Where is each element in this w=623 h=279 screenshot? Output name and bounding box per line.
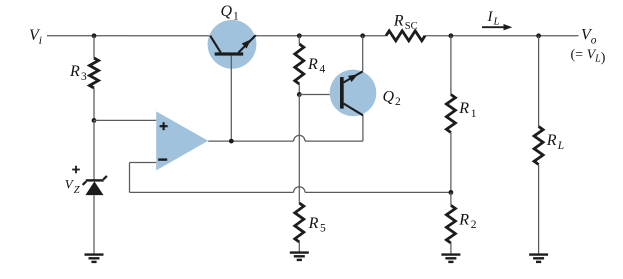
- svg-text:SC: SC: [405, 21, 418, 32]
- current label IL with arrow: [482, 9, 512, 31]
- junction output rail / RL: [536, 33, 541, 38]
- junction output rail / R1: [449, 33, 454, 38]
- resistor R4: [295, 36, 326, 95]
- svg-text:(= VL): (= VL): [571, 47, 606, 65]
- svg-text:Q: Q: [221, 3, 233, 20]
- wire hop over R5 branch (feedback wire): [294, 187, 305, 193]
- resistor R5: [295, 203, 326, 252]
- node Vo: [571, 27, 606, 66]
- svg-text:Vo: Vo: [581, 27, 597, 47]
- ground below zener: [85, 255, 104, 262]
- wire op-amp inverting input: [130, 163, 157, 193]
- svg-text:L: L: [557, 140, 564, 152]
- svg-text:R: R: [69, 63, 80, 80]
- op-amp U1: [156, 111, 208, 170]
- svg-text:R: R: [393, 13, 404, 30]
- svg-text:R: R: [546, 132, 557, 149]
- svg-text:R: R: [307, 56, 318, 73]
- ground below R5: [290, 253, 309, 260]
- svg-text:R: R: [458, 211, 469, 228]
- transistor Q1: [208, 3, 257, 69]
- ground below RL: [529, 255, 548, 262]
- wire junction to op-amp noninverting input: [94, 119, 156, 121]
- resistor RSC: [386, 13, 425, 41]
- resistor R3: [69, 36, 99, 121]
- svg-text:Z: Z: [74, 185, 80, 196]
- svg-text:R: R: [458, 100, 469, 117]
- svg-text:1: 1: [471, 108, 477, 120]
- junction op-amp output / Q1 base: [229, 139, 234, 144]
- wire op-amp output to Q1 base junction: [208, 140, 293, 142]
- junction R4 / Q2 base / R5 branch: [297, 92, 302, 97]
- resistor R1: [446, 36, 476, 193]
- wire feedback run to R1/R2 tap: [130, 191, 294, 193]
- wire Q2 base: [299, 94, 340, 96]
- wire zener anode lead: [93, 120, 95, 179]
- svg-text:3: 3: [81, 71, 87, 83]
- resistor RL: [534, 36, 564, 254]
- wire hop over R5 branch (output wire): [294, 135, 305, 141]
- ground below R2: [441, 255, 460, 262]
- wire zener to ground: [93, 195, 95, 254]
- wire R4 junction down to R5: [298, 95, 300, 204]
- wire input rail from Vi to Q1 collector: [47, 35, 211, 37]
- zener diode VZ: [65, 166, 107, 196]
- wire Q1 base down to op-amp output: [230, 56, 232, 142]
- wire Q1 emitter to RSC: [256, 35, 386, 37]
- wire RSC to Vo: [425, 35, 579, 37]
- junction top rail / R4: [297, 33, 302, 38]
- junction top rail / Q2 emitter: [360, 33, 365, 38]
- junction input rail / R3: [92, 33, 97, 38]
- svg-text:2: 2: [471, 219, 477, 231]
- wire Q2 emitter up to top rail: [362, 36, 364, 72]
- svg-text:2: 2: [395, 96, 401, 108]
- svg-text:I: I: [487, 9, 494, 25]
- svg-text:4: 4: [320, 64, 326, 76]
- svg-text:1: 1: [233, 10, 239, 22]
- resistor R2: [446, 192, 476, 254]
- junction R1 / R2 / feedback: [449, 190, 454, 195]
- transistor Q2: [330, 70, 401, 117]
- svg-text:R: R: [308, 215, 319, 232]
- node Vi: [29, 27, 42, 47]
- svg-text:L: L: [493, 16, 500, 28]
- svg-text:5: 5: [320, 223, 326, 235]
- wire feedback to divider junction: [305, 191, 451, 193]
- junction R3 / zener / op-amp + input: [92, 118, 97, 123]
- svg-text:Vi: Vi: [29, 27, 42, 47]
- svg-text:Q: Q: [383, 89, 395, 106]
- wire op-amp output to Q2 collector: [305, 115, 363, 141]
